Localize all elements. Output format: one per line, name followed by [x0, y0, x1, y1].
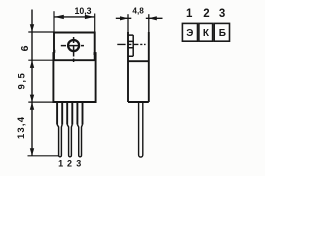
- svg-text:Э: Э: [186, 28, 193, 39]
- svg-text:3: 3: [76, 158, 81, 168]
- svg-text:2: 2: [67, 158, 72, 168]
- svg-text:4,8: 4,8: [132, 6, 144, 15]
- svg-text:К: К: [203, 28, 210, 39]
- svg-text:10,3: 10,3: [74, 6, 91, 16]
- svg-text:9,5: 9,5: [16, 72, 27, 90]
- svg-text:Б: Б: [219, 28, 226, 39]
- svg-text:6: 6: [19, 45, 31, 51]
- svg-text:1: 1: [58, 158, 63, 168]
- svg-text:3: 3: [219, 8, 225, 20]
- svg-text:13,4: 13,4: [16, 116, 27, 139]
- svg-text:2: 2: [203, 8, 209, 20]
- svg-text:1: 1: [186, 8, 193, 20]
